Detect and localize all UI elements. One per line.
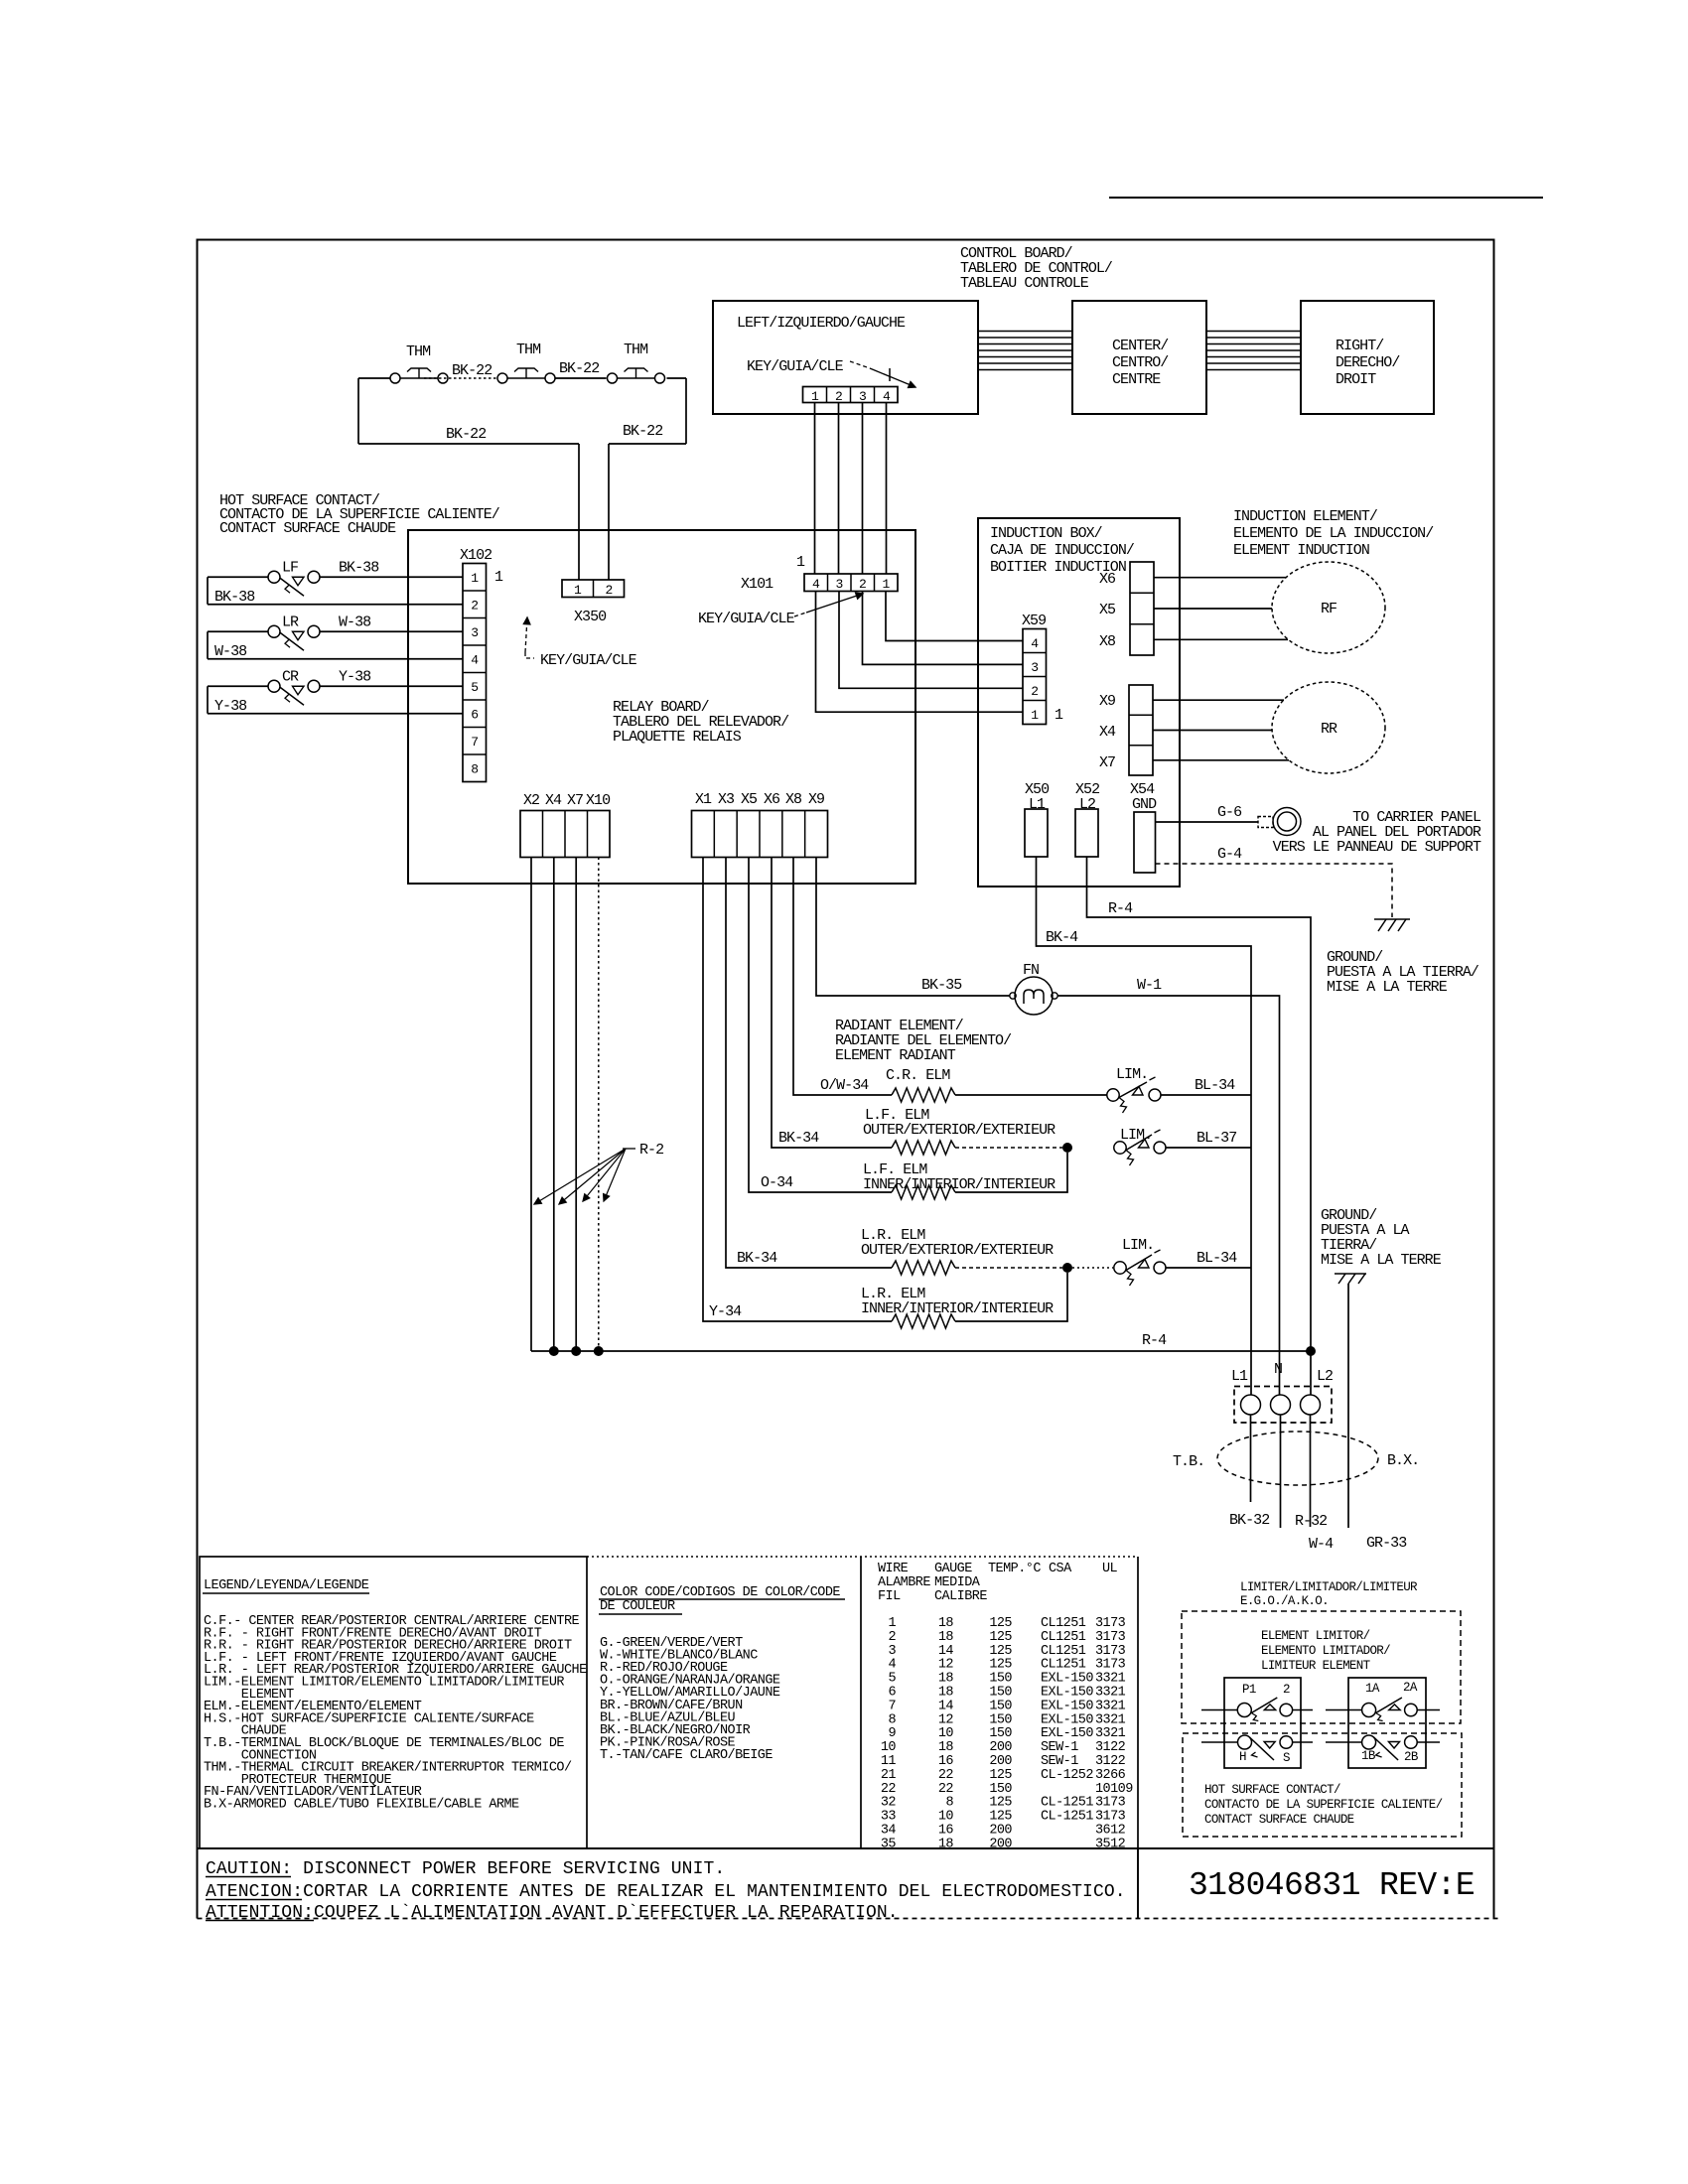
svg-text:21: 21	[881, 1768, 897, 1783]
connector X2/X4/X7/X10	[520, 811, 610, 858]
svg-text:BK-22: BK-22	[446, 426, 486, 443]
svg-text:LR: LR	[282, 614, 299, 630]
wire R-4 bus	[531, 1350, 1311, 1352]
svg-text:150: 150	[989, 1782, 1012, 1797]
ring terminal G-6	[1258, 817, 1273, 828]
svg-text:14: 14	[938, 1699, 954, 1713]
svg-text:2: 2	[835, 389, 842, 404]
svg-text:P1: P1	[1242, 1683, 1256, 1697]
svg-text:X7: X7	[1099, 754, 1115, 771]
wire X6 to RF	[1154, 577, 1286, 579]
wire THM loop left side	[357, 378, 359, 444]
svg-text:BL-34: BL-34	[1196, 1250, 1237, 1267]
svg-text:EXL-150: EXL-150	[1041, 1672, 1093, 1687]
induction element RR	[1272, 682, 1385, 773]
svg-text:X5: X5	[741, 791, 758, 808]
control board CENTER box	[1072, 301, 1206, 414]
svg-text:200: 200	[989, 1824, 1012, 1839]
wire X4 down to R-4 bus	[553, 858, 555, 1352]
legend top dotted segment	[587, 1556, 1138, 1558]
wire J-LEFT pin2 to X101	[838, 403, 840, 575]
connector X1/X3/X5/X6/X8/X9	[692, 811, 828, 858]
svg-text:CAJA DE INDUCCION/: CAJA DE INDUCCION/	[990, 542, 1135, 559]
wire BL-34 (C.R.)	[1161, 1094, 1251, 1096]
wire X101 pin1 to X59 pin4	[886, 592, 1023, 641]
junction dot L.F.	[1062, 1143, 1072, 1153]
svg-text:1: 1	[1031, 708, 1039, 723]
caution divider	[1137, 1848, 1139, 1919]
svg-text:G-4: G-4	[1217, 846, 1242, 863]
hot surface switch LF	[208, 576, 268, 578]
svg-text:CONTACT SURFACE CHAUDE: CONTACT SURFACE CHAUDE	[1204, 1813, 1354, 1827]
svg-text:3512: 3512	[1095, 1837, 1126, 1851]
svg-text:CL1251: CL1251	[1041, 1616, 1086, 1631]
svg-text:EXL-150: EXL-150	[1041, 1686, 1093, 1701]
wire X8 to C.R. element	[793, 858, 892, 1096]
svg-text:LIMITER/LIMITADOR/LIMITEUR: LIMITER/LIMITADOR/LIMITEUR	[1240, 1580, 1418, 1594]
svg-text:34: 34	[881, 1824, 897, 1839]
hot surface switch LR	[208, 630, 268, 632]
wire X101 pin3 to X59 pin2	[839, 592, 1023, 689]
wire X10 down to R-4 bus dotted	[598, 858, 600, 1352]
hot surface switch CR	[208, 685, 268, 687]
svg-text:RF: RF	[1321, 601, 1336, 617]
svg-text:X8: X8	[1099, 633, 1116, 650]
svg-text:BK-34: BK-34	[778, 1130, 819, 1147]
wire table right edge	[1137, 1557, 1139, 1919]
svg-text:CENTER/: CENTER/	[1112, 338, 1169, 354]
svg-text:2: 2	[888, 1630, 896, 1645]
svg-text:CL-1252: CL-1252	[1041, 1768, 1093, 1783]
connector X350	[562, 580, 625, 598]
wire BK-4 X50-L1	[1037, 857, 1252, 1395]
svg-text:1: 1	[796, 554, 805, 571]
key pointer arrow (X101)	[794, 613, 806, 616]
ground symbol (supply)	[1335, 1273, 1366, 1275]
svg-text:18: 18	[938, 1630, 954, 1645]
svg-text:LF: LF	[282, 559, 298, 576]
thermal breaker THM 2	[497, 373, 507, 383]
svg-text:X9: X9	[808, 791, 824, 808]
svg-text:CL-1251: CL-1251	[1041, 1810, 1093, 1825]
wire L2 below	[1310, 1415, 1312, 1527]
svg-text:CL1251: CL1251	[1041, 1630, 1086, 1645]
svg-text:18: 18	[938, 1616, 954, 1631]
svg-text:125: 125	[989, 1644, 1012, 1659]
svg-text:BK-35: BK-35	[921, 977, 962, 994]
wire to X350 pin 1	[578, 444, 580, 580]
hot surface contact H-S	[1238, 1735, 1252, 1749]
wire X2 down to R-4 bus	[530, 858, 532, 1352]
wire dotted junction to LIM (L.R.)	[1072, 1267, 1113, 1269]
svg-text:EXL-150: EXL-150	[1041, 1712, 1093, 1727]
svg-text:4: 4	[471, 653, 479, 668]
svg-text:200: 200	[989, 1754, 1012, 1769]
svg-text:14: 14	[938, 1644, 954, 1659]
ribbon wires CENTER-RIGHT	[1206, 331, 1301, 333]
svg-text:BL-37: BL-37	[1196, 1130, 1236, 1147]
wire G-4 dashed	[1156, 864, 1393, 917]
svg-text:12: 12	[938, 1712, 954, 1727]
outer border frame	[198, 240, 1494, 1919]
junction dot L2 bus	[1306, 1346, 1316, 1356]
svg-text:32: 32	[881, 1796, 897, 1811]
svg-text:125: 125	[989, 1658, 1012, 1673]
svg-text:8: 8	[888, 1712, 896, 1727]
svg-text:EXL-150: EXL-150	[1041, 1699, 1093, 1713]
svg-text:CL1251: CL1251	[1041, 1658, 1086, 1673]
svg-text:125: 125	[989, 1768, 1012, 1783]
svg-text:3: 3	[888, 1644, 896, 1659]
svg-text:ELEMENT INDUCTION: ELEMENT INDUCTION	[1233, 542, 1369, 559]
wire J-LEFT pin1 to X101	[814, 403, 816, 575]
resistor L.R. ELM outer	[892, 1261, 955, 1275]
svg-text:ATENCION:CORTAR LA CORRIENTE A: ATENCION:CORTAR LA CORRIENTE ANTES DE RE…	[206, 1882, 1126, 1902]
wire X5 to RF	[1154, 608, 1272, 610]
svg-text:MISE A LA TERRE: MISE A LA TERRE	[1327, 979, 1448, 996]
wire J-LEFT pin3 to X101	[862, 403, 864, 575]
svg-text:LIM.: LIM.	[1120, 1127, 1152, 1144]
svg-text:3321: 3321	[1095, 1712, 1126, 1727]
junction dot X7 bus	[571, 1346, 581, 1356]
svg-text:CR: CR	[282, 668, 299, 685]
svg-text:6: 6	[888, 1686, 896, 1701]
svg-text:1: 1	[888, 1616, 896, 1631]
svg-text:6: 6	[471, 708, 478, 723]
svg-text:THM: THM	[516, 341, 541, 358]
svg-text:10: 10	[881, 1740, 897, 1755]
svg-text:3: 3	[859, 389, 866, 404]
svg-text:10: 10	[938, 1810, 954, 1825]
connector J-LEFT pins 1-4	[803, 387, 899, 403]
svg-text:TEMP.°C: TEMP.°C	[988, 1562, 1041, 1576]
svg-text:11: 11	[881, 1754, 897, 1769]
svg-text:2B: 2B	[1404, 1750, 1419, 1764]
svg-text:ALAMBRE: ALAMBRE	[878, 1575, 930, 1590]
svg-text:125: 125	[989, 1796, 1012, 1811]
svg-text:18: 18	[938, 1686, 954, 1701]
svg-text:SEW-1: SEW-1	[1041, 1754, 1078, 1769]
wire X4 to RR	[1153, 730, 1272, 732]
svg-text:BK-22: BK-22	[452, 362, 492, 379]
svg-text:X59: X59	[1022, 613, 1046, 629]
svg-text:X7: X7	[567, 792, 583, 809]
svg-text:X1: X1	[695, 791, 712, 808]
svg-text:HOT SURFACE CONTACT/: HOT SURFACE CONTACT/	[1204, 1783, 1340, 1797]
wire X6 to L.F. outer	[772, 858, 892, 1149]
svg-text:X10: X10	[586, 792, 611, 809]
svg-text:3: 3	[835, 577, 842, 592]
svg-text:E.G.O./A.K.O.: E.G.O./A.K.O.	[1240, 1594, 1329, 1608]
svg-text:18: 18	[938, 1740, 954, 1755]
svg-text:R-4: R-4	[1142, 1332, 1167, 1349]
wire THM loop bottom left	[358, 443, 579, 445]
junction dot X10 bus	[594, 1346, 604, 1356]
svg-text:2: 2	[1283, 1683, 1290, 1697]
svg-text:1: 1	[471, 571, 479, 586]
resistor L.F. ELM outer	[892, 1141, 955, 1155]
wires limiter top row	[1201, 1709, 1237, 1711]
svg-text:8: 8	[945, 1796, 953, 1811]
svg-text:LEFT/IZQUIERDO/GAUCHE: LEFT/IZQUIERDO/GAUCHE	[737, 315, 906, 332]
svg-text:COLOR CODE/CODIGOS DE COLOR/CO: COLOR CODE/CODIGOS DE COLOR/CODE	[600, 1585, 840, 1600]
svg-text:CONTACTO DE LA SUPERFICIE CALI: CONTACTO DE LA SUPERFICIE CALIENTE/	[1204, 1798, 1443, 1812]
svg-text:X2: X2	[523, 792, 539, 809]
induction box	[978, 518, 1180, 887]
resistor L.R. ELM inner	[892, 1314, 955, 1328]
svg-text:G-6: G-6	[1217, 804, 1242, 821]
wire THM loop right side	[685, 378, 687, 444]
svg-text:VERS LE PANNEAU DE SUPPORT: VERS LE PANNEAU DE SUPPORT	[1273, 839, 1481, 856]
svg-text:ELEMENT RADIANT: ELEMENT RADIANT	[835, 1047, 956, 1064]
svg-text:ELEMENTO DE LA INDUCCION/: ELEMENTO DE LA INDUCCION/	[1233, 525, 1434, 542]
wire L.R. inner to junction	[955, 1273, 1067, 1321]
wire X7 to RR	[1153, 759, 1289, 761]
svg-text:GAUGE: GAUGE	[934, 1562, 972, 1576]
svg-text:FIL: FIL	[878, 1589, 901, 1604]
svg-text:CALIBRE: CALIBRE	[934, 1589, 987, 1604]
wire X9 to RR	[1153, 699, 1284, 701]
legend box	[200, 1557, 587, 1848]
svg-text:BK-32: BK-32	[1229, 1512, 1269, 1529]
svg-text:35: 35	[881, 1837, 897, 1851]
svg-text:1: 1	[811, 389, 819, 404]
svg-text:THM: THM	[624, 341, 648, 358]
svg-text:16: 16	[938, 1824, 954, 1839]
svg-text:ELEMENTO LIMITADOR/: ELEMENTO LIMITADOR/	[1261, 1644, 1390, 1658]
svg-text:10: 10	[938, 1726, 954, 1741]
svg-text:C.R. ELM: C.R. ELM	[886, 1067, 950, 1084]
svg-text:L1: L1	[1029, 796, 1046, 813]
svg-text:W-4: W-4	[1309, 1536, 1334, 1553]
svg-text:DERECHO/: DERECHO/	[1336, 354, 1400, 371]
wire C.R. ELM to LIM	[955, 1094, 1107, 1096]
svg-text:7: 7	[888, 1699, 896, 1713]
svg-text:200: 200	[989, 1740, 1012, 1755]
svg-text:W-1: W-1	[1137, 977, 1162, 994]
wire THM loop bottom right	[609, 443, 686, 445]
svg-text:3612: 3612	[1095, 1824, 1126, 1839]
svg-text:BK-22: BK-22	[559, 360, 599, 377]
connector X54	[1134, 812, 1156, 873]
svg-text:3173: 3173	[1095, 1616, 1126, 1631]
svg-text:3266: 3266	[1095, 1768, 1126, 1783]
svg-text:BK-34: BK-34	[737, 1250, 777, 1267]
svg-text:N: N	[1274, 1361, 1282, 1378]
svg-text:L2: L2	[1317, 1368, 1333, 1385]
svg-text:2A: 2A	[1403, 1681, 1418, 1695]
limiter switch body left	[1224, 1678, 1301, 1768]
connector X59	[1023, 629, 1047, 725]
svg-text:1: 1	[494, 569, 503, 586]
wire L.F. inner to junction	[955, 1153, 1067, 1192]
key pointer arrow (left board)	[850, 361, 870, 368]
svg-text:O-34: O-34	[761, 1174, 793, 1191]
svg-text:KEY/GUIA/CLE: KEY/GUIA/CLE	[540, 652, 637, 669]
svg-text:Y-38: Y-38	[214, 698, 247, 715]
element limitor dashed box	[1182, 1611, 1461, 1723]
connector X6/X5/X8	[1130, 562, 1154, 655]
svg-text:3122: 3122	[1095, 1740, 1126, 1755]
svg-text:2: 2	[605, 583, 612, 598]
svg-text:THM: THM	[406, 343, 431, 360]
svg-text:150: 150	[989, 1726, 1012, 1741]
svg-text:B.X.: B.X.	[1387, 1452, 1419, 1469]
svg-text:L1: L1	[1231, 1368, 1248, 1385]
svg-text:3321: 3321	[1095, 1699, 1126, 1713]
svg-text:1: 1	[882, 577, 890, 592]
outer border bottom dashed	[198, 1918, 1501, 1920]
svg-text:10109: 10109	[1095, 1782, 1133, 1797]
svg-text:18: 18	[938, 1837, 954, 1851]
connector X102	[463, 564, 487, 782]
svg-text:4: 4	[1031, 636, 1039, 651]
svg-text:3173: 3173	[1095, 1810, 1126, 1825]
title rule top right	[1109, 197, 1543, 199]
svg-text:CL1251: CL1251	[1041, 1644, 1086, 1659]
svg-text:LIMITEUR ELEMENT: LIMITEUR ELEMENT	[1261, 1659, 1371, 1673]
svg-text:2: 2	[859, 577, 866, 592]
limiter switch LIM L.F.	[1114, 1142, 1126, 1154]
svg-text:22: 22	[938, 1782, 954, 1797]
svg-text:CONTACT SURFACE CHAUDE: CONTACT SURFACE CHAUDE	[219, 520, 396, 537]
svg-text:T.-TAN/CAFE CLARO/BEIGE: T.-TAN/CAFE CLARO/BEIGE	[600, 1748, 773, 1763]
svg-text:18: 18	[938, 1672, 954, 1687]
svg-text:W-38: W-38	[339, 614, 371, 630]
svg-text:3173: 3173	[1095, 1630, 1126, 1645]
relay board box	[408, 530, 915, 884]
svg-text:5: 5	[888, 1672, 896, 1687]
svg-text:O/W-34: O/W-34	[820, 1077, 869, 1094]
svg-text:H: H	[1239, 1750, 1246, 1764]
limiter contact P1-2	[1237, 1704, 1251, 1717]
svg-text:PLAQUETTE RELAIS: PLAQUETTE RELAIS	[613, 729, 742, 746]
wire BL-34 (L.R.)	[1166, 1267, 1251, 1269]
svg-text:5: 5	[471, 680, 478, 695]
svg-text:W-38: W-38	[214, 643, 247, 660]
svg-text:X3: X3	[718, 791, 735, 808]
svg-text:3321: 3321	[1095, 1686, 1126, 1701]
svg-text:SEW-1: SEW-1	[1041, 1740, 1078, 1755]
wire ground GR-33	[1347, 1284, 1349, 1528]
svg-text:OUTER/EXTERIOR/EXTERIEUR: OUTER/EXTERIOR/EXTERIEUR	[863, 1122, 1055, 1139]
wire X101 pin2 to X59 pin3	[863, 592, 1024, 665]
limiter switch LIM C.R.	[1107, 1089, 1119, 1101]
wire to X350 pin 2	[608, 444, 610, 580]
svg-text:3321: 3321	[1095, 1726, 1126, 1741]
key pointer (X350)	[525, 617, 527, 652]
svg-text:INNER/INTERIOR/INTERIEUR: INNER/INTERIOR/INTERIEUR	[861, 1300, 1054, 1317]
svg-text:MEDIDA: MEDIDA	[934, 1575, 981, 1590]
svg-text:B.X-ARMORED CABLE/TUBO FLEXIBL: B.X-ARMORED CABLE/TUBO FLEXIBLE/CABLE AR…	[204, 1798, 519, 1813]
svg-text:X6: X6	[764, 791, 780, 808]
ribbon wires LEFT-CENTER	[978, 331, 1072, 333]
svg-text:3173: 3173	[1095, 1658, 1126, 1673]
svg-text:X9: X9	[1099, 693, 1115, 710]
svg-text:X4: X4	[545, 792, 562, 809]
wire J-LEFT pin4 to X101	[886, 403, 888, 575]
svg-text:150: 150	[989, 1672, 1012, 1687]
svg-text:GND: GND	[1132, 796, 1157, 813]
wire X7 down to R-4 bus	[575, 858, 577, 1352]
svg-text:S: S	[1283, 1751, 1290, 1765]
terminal block T.B.	[1234, 1387, 1332, 1424]
limiter contact 1A-2A	[1362, 1704, 1376, 1717]
svg-text:X4: X4	[1099, 724, 1116, 741]
svg-text:DROIT: DROIT	[1336, 371, 1376, 388]
thermal breaker THM 1	[390, 373, 400, 383]
svg-text:RIGHT/: RIGHT/	[1336, 338, 1384, 354]
thermal breaker THM 3	[608, 373, 618, 383]
svg-text:BK-4: BK-4	[1046, 929, 1078, 946]
wire X5 to L.F. inner	[749, 858, 892, 1193]
svg-text:3: 3	[471, 625, 478, 640]
wire X101 pin4 to X59 pin1	[816, 592, 1024, 713]
pointer R-2 arrows	[623, 1148, 635, 1150]
svg-text:33: 33	[881, 1810, 897, 1825]
svg-text:4: 4	[883, 389, 891, 404]
svg-text:3122: 3122	[1095, 1754, 1126, 1769]
svg-text:12: 12	[938, 1658, 954, 1673]
junction dot X4 bus	[549, 1346, 559, 1356]
wire table left edge	[860, 1557, 862, 1848]
wire R-4 X52-L2	[1087, 857, 1312, 1395]
svg-text:125: 125	[989, 1630, 1012, 1645]
svg-text:200: 200	[989, 1837, 1012, 1851]
armored cable B.X. ellipse	[1217, 1432, 1378, 1485]
svg-text:BK-38: BK-38	[214, 589, 255, 606]
svg-text:X350: X350	[574, 609, 607, 625]
svg-text:318046831 REV:E: 318046831 REV:E	[1189, 1867, 1475, 1904]
svg-text:R-32: R-32	[1295, 1513, 1327, 1530]
limiter switch body right	[1348, 1678, 1426, 1768]
svg-text:INDUCTION ELEMENT/: INDUCTION ELEMENT/	[1233, 508, 1378, 525]
svg-text:CSA: CSA	[1049, 1562, 1072, 1576]
svg-text:4: 4	[888, 1658, 896, 1673]
ground symbol (carrier)	[1374, 918, 1410, 920]
svg-text:L2: L2	[1079, 796, 1095, 813]
svg-text:4: 4	[812, 577, 820, 592]
connector X50	[1025, 809, 1048, 857]
svg-text:125: 125	[989, 1616, 1012, 1631]
svg-text:2: 2	[1031, 684, 1038, 699]
svg-text:X8: X8	[785, 791, 802, 808]
wire N below	[1280, 1415, 1282, 1528]
svg-text:Y-38: Y-38	[339, 668, 371, 685]
wire BL-37	[1166, 1147, 1251, 1149]
wire BK-22 top run	[358, 377, 390, 379]
svg-text:Y-34: Y-34	[709, 1303, 742, 1320]
svg-text:150: 150	[989, 1686, 1012, 1701]
wire G-6	[1156, 821, 1259, 823]
svg-text:GR-33: GR-33	[1366, 1535, 1407, 1552]
hot surface contact 1B-2B	[1362, 1735, 1376, 1749]
svg-text:LIM.: LIM.	[1116, 1066, 1148, 1083]
wire W-1 fan to N	[1058, 996, 1280, 1395]
svg-text:CENTRO/: CENTRO/	[1112, 354, 1169, 371]
svg-text:X101: X101	[741, 576, 774, 593]
svg-text:CL-1251: CL-1251	[1041, 1796, 1093, 1811]
wire dashed to junction (L.R.)	[955, 1267, 1062, 1269]
svg-text:1A: 1A	[1365, 1682, 1380, 1696]
svg-text:INDUCTION BOX/: INDUCTION BOX/	[990, 525, 1103, 542]
svg-text:ELEMENT LIMITOR/: ELEMENT LIMITOR/	[1261, 1629, 1370, 1643]
svg-text:150: 150	[989, 1712, 1012, 1727]
svg-text:X6: X6	[1099, 571, 1116, 588]
svg-text:1: 1	[574, 583, 582, 598]
svg-text:R-2: R-2	[639, 1142, 663, 1159]
wire X1 to L.R. inner	[703, 858, 892, 1322]
